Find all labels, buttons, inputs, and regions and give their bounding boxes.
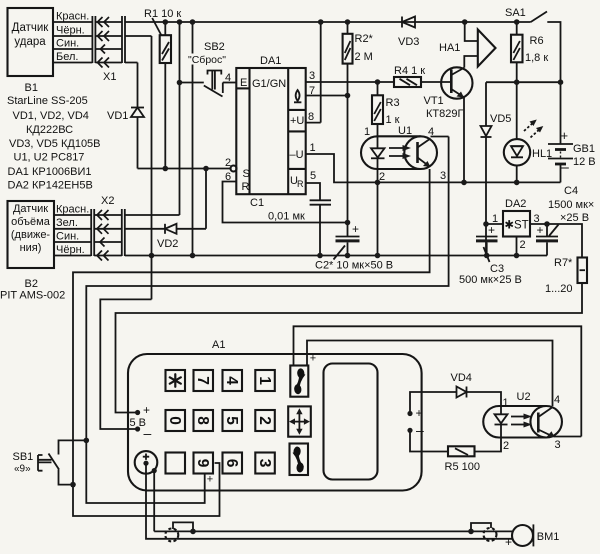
svg-text:–: – [144,425,152,441]
svg-text:3: 3 [256,459,273,468]
svg-text:R: R [242,181,250,193]
svg-text:VD4: VD4 [451,372,472,384]
svg-text:КД222ВС: КД222ВС [26,124,73,136]
svg-text:Датчик: Датчик [13,203,48,215]
svg-text:5: 5 [223,416,240,425]
svg-text:объёма: объёма [11,216,51,228]
svg-text:1,8 к: 1,8 к [525,52,548,64]
svg-text:R7*: R7* [554,257,573,269]
svg-text:1: 1 [256,376,273,385]
svg-text:SB1: SB1 [13,451,34,463]
svg-text:0,01 мк: 0,01 мк [268,211,305,223]
svg-text:«9»: «9» [14,464,31,475]
svg-text:SB2: SB2 [204,41,225,53]
svg-text:–: – [561,159,570,176]
svg-text:SA1: SA1 [505,7,526,19]
svg-text:VT1: VT1 [424,95,444,107]
svg-text:3: 3 [309,70,315,82]
svg-text:C2* 10 мк×50 В: C2* 10 мк×50 В [315,260,393,272]
svg-text:VD3: VD3 [398,36,419,48]
svg-text:R6: R6 [530,35,544,47]
svg-text:8: 8 [194,416,211,425]
svg-text:+: + [416,406,423,420]
svg-text:4: 4 [428,126,434,138]
svg-text:7: 7 [194,376,211,385]
svg-text:2: 2 [256,416,273,425]
svg-text:R1 10 к: R1 10 к [144,8,181,20]
svg-text:1: 1 [503,397,509,409]
svg-text:DA2 КР142ЕН5В: DA2 КР142ЕН5В [8,180,93,192]
svg-text:×25 В: ×25 В [560,212,589,224]
svg-text:6: 6 [223,459,240,468]
svg-text:VD5: VD5 [490,113,511,125]
svg-text:R5 100: R5 100 [445,461,480,473]
svg-text:+: + [143,403,150,417]
svg-text:Чёрн.: Чёрн. [56,244,85,256]
svg-text:HL1: HL1 [532,148,552,160]
svg-text:4: 4 [225,72,231,84]
svg-text:1: 1 [364,126,370,138]
svg-text:КТ829Г: КТ829Г [426,108,463,120]
svg-text:B2: B2 [25,278,38,290]
svg-text:9: 9 [194,459,211,468]
svg-text:DA1 КР1006ВИ1: DA1 КР1006ВИ1 [8,166,92,178]
svg-text:VD2: VD2 [157,238,178,250]
svg-text:✱ST: ✱ST [504,220,528,232]
svg-text:Датчик: Датчик [12,22,50,34]
svg-text:А1: А1 [212,339,225,351]
svg-text:ния): ния) [20,242,42,254]
svg-text:Зел.: Зел. [56,217,78,229]
svg-text:U1: U1 [398,125,412,137]
svg-text:DA1: DA1 [260,55,281,67]
svg-text:2: 2 [503,440,509,452]
svg-text:5: 5 [310,170,316,182]
svg-text:+: + [505,535,512,549]
svg-text:(движе-: (движе- [11,229,51,241]
svg-text:1: 1 [310,142,316,154]
svg-text:+: + [488,223,495,237]
svg-text:–: – [416,422,424,438]
svg-text:2: 2 [379,171,385,183]
svg-text:GB1: GB1 [573,143,595,155]
svg-text:+U: +U [290,115,304,127]
svg-text:Бел.: Бел. [56,51,78,63]
svg-text:Син.: Син. [56,231,79,243]
svg-text:–U: –U [290,149,304,161]
svg-text:B1: B1 [25,82,38,94]
svg-text:E: E [240,77,247,89]
svg-text:3: 3 [440,170,446,182]
svg-text:VD1: VD1 [107,110,128,122]
svg-text:G1/GN: G1/GN [252,78,286,90]
svg-text:4: 4 [554,394,560,406]
svg-text:удара: удара [14,36,46,48]
svg-text:12 В: 12 В [573,156,596,168]
svg-text:X1: X1 [103,71,116,83]
svg-text:8: 8 [308,111,314,123]
svg-text:VD1, VD2, VD4: VD1, VD2, VD4 [13,110,89,122]
svg-text:6: 6 [225,171,231,183]
svg-text:1500 мк×: 1500 мк× [548,199,594,211]
svg-text:VD3, VD5 КД105В: VD3, VD5 КД105В [9,138,101,150]
svg-text:X2: X2 [101,195,114,207]
svg-text:7: 7 [309,85,315,97]
svg-text:2: 2 [225,157,231,169]
svg-text:500 мк×25 В: 500 мк×25 В [459,274,522,286]
svg-text:+: + [207,474,213,486]
svg-text:2 М: 2 М [355,51,373,63]
svg-text:StarLine SS-205: StarLine SS-205 [7,95,88,107]
svg-text:Красн.: Красн. [56,204,89,216]
svg-text:DA2: DA2 [505,198,526,210]
svg-text:R: R [297,179,304,189]
svg-text:"Сброс": "Сброс" [188,54,226,66]
svg-text:HA1: HA1 [439,42,460,54]
svg-text:+: + [561,128,569,143]
svg-text:BM1: BM1 [537,531,560,543]
svg-text:3: 3 [555,439,561,451]
svg-text:1...20: 1...20 [545,283,573,295]
svg-text:PIT AMS-002: PIT AMS-002 [0,290,65,302]
svg-text:U1, U2 PC817: U1, U2 PC817 [14,152,85,164]
svg-text:R2*: R2* [355,33,374,45]
svg-text:4: 4 [223,376,240,385]
svg-text:0: 0 [166,416,183,425]
svg-text:R3: R3 [386,97,400,109]
svg-text:+: + [537,223,544,237]
svg-text:2: 2 [520,239,526,251]
svg-text:U2: U2 [517,391,531,403]
svg-text:C4: C4 [564,185,578,197]
svg-text:+: + [310,353,316,365]
svg-text:R4 1 к: R4 1 к [394,65,425,77]
svg-text:Красн.: Красн. [56,11,89,23]
svg-text:+: + [352,222,359,236]
svg-text:C1: C1 [250,197,264,209]
svg-text:S: S [243,168,250,180]
svg-text:Син.: Син. [56,38,79,50]
svg-text:Чёрн.: Чёрн. [56,25,85,37]
